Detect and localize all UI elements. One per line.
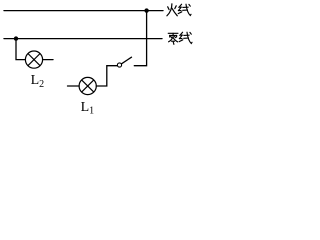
svg-text:L1: L1 <box>81 100 95 117</box>
svg-text:L2: L2 <box>31 73 45 90</box>
